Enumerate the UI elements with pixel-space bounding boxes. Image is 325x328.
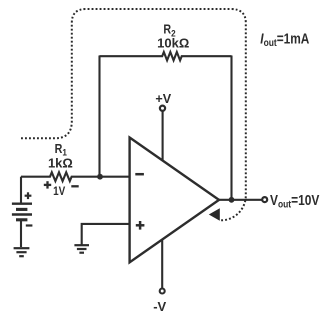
svg-text:1kΩ: 1kΩ [48, 156, 73, 171]
svg-text:+V: +V [155, 92, 171, 106]
svg-text:10kΩ: 10kΩ [157, 36, 189, 51]
svg-text:-V: -V [153, 299, 166, 314]
svg-text:1V: 1V [53, 185, 66, 198]
svg-text:Vout=10V: Vout=10V [270, 192, 320, 210]
